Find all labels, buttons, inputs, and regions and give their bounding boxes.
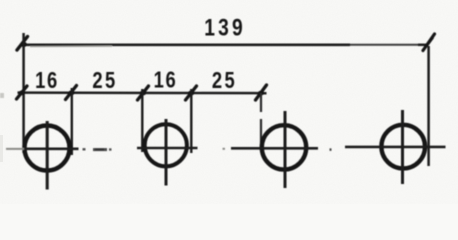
svg-text:16: 16 <box>154 68 178 93</box>
svg-text:16: 16 <box>35 68 59 93</box>
svg-text:139: 139 <box>204 14 246 42</box>
svg-text:25: 25 <box>212 68 237 93</box>
svg-text:25: 25 <box>92 68 117 93</box>
